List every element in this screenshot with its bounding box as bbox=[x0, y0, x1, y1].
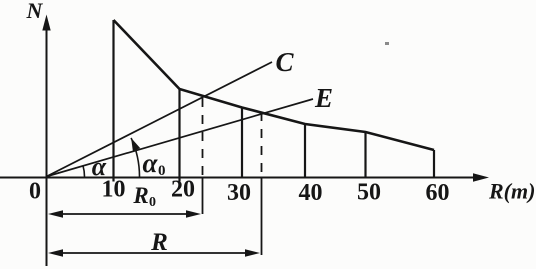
svg-text:0: 0 bbox=[158, 163, 166, 179]
svg-text:R: R bbox=[132, 183, 148, 208]
svg-text:0: 0 bbox=[29, 179, 41, 205]
svg-text:30: 30 bbox=[227, 180, 251, 206]
svg-text:E: E bbox=[314, 83, 333, 113]
svg-text:0: 0 bbox=[149, 195, 156, 210]
svg-text:α: α bbox=[143, 148, 159, 178]
svg-text:50: 50 bbox=[357, 180, 381, 206]
svg-text:N: N bbox=[26, 0, 44, 23]
svg-text:C: C bbox=[275, 47, 294, 77]
svg-text:R(m): R(m) bbox=[488, 179, 535, 204]
svg-text:R: R bbox=[150, 229, 168, 256]
svg-text:20: 20 bbox=[171, 177, 195, 203]
svg-text:α: α bbox=[92, 152, 107, 181]
svg-text:60: 60 bbox=[426, 180, 450, 206]
svg-text:40: 40 bbox=[299, 180, 323, 206]
